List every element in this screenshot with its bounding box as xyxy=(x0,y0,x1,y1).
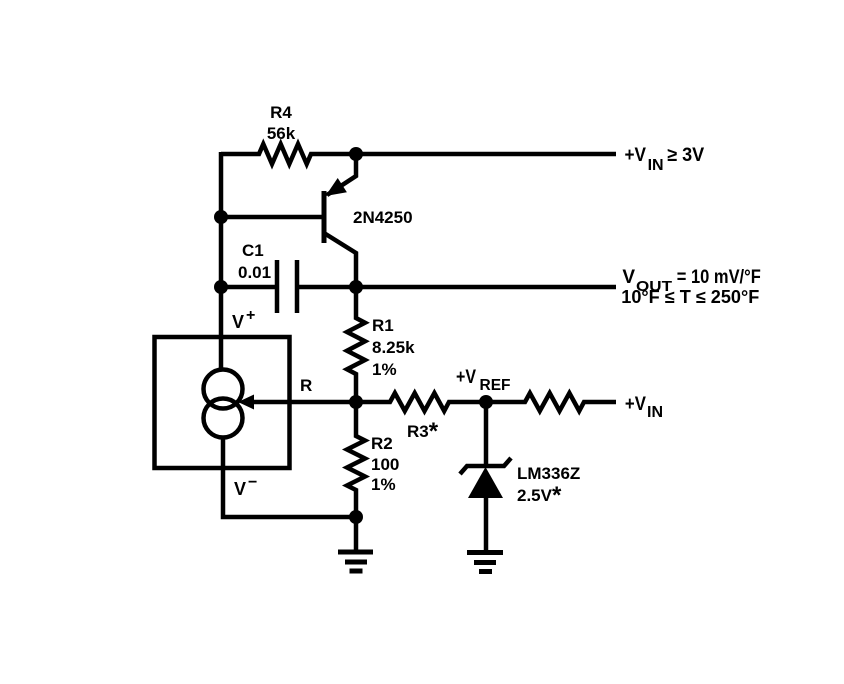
svg-text:1%: 1% xyxy=(372,360,397,379)
svg-text:+V: +V xyxy=(456,367,476,388)
svg-text:+V: +V xyxy=(625,394,646,415)
svg-text:REF: REF xyxy=(480,377,511,394)
svg-text:R2: R2 xyxy=(371,434,393,453)
svg-text:8.25k: 8.25k xyxy=(372,338,415,357)
svg-text:100: 100 xyxy=(371,455,399,474)
svg-text:10°F ≤ T ≤ 250°F: 10°F ≤ T ≤ 250°F xyxy=(621,287,759,307)
svg-text:C1: C1 xyxy=(242,241,264,260)
svg-text:R: R xyxy=(300,376,312,395)
svg-text:LM336Z: LM336Z xyxy=(517,464,580,483)
svg-text:IN: IN xyxy=(648,157,664,174)
svg-text:R1: R1 xyxy=(372,316,394,335)
svg-text:≥ 3V: ≥ 3V xyxy=(667,145,704,166)
svg-text:2.5V*: 2.5V* xyxy=(517,482,562,509)
svg-text:R3*: R3* xyxy=(407,418,439,445)
svg-text:V+: V+ xyxy=(232,307,255,332)
svg-text:+V: +V xyxy=(625,145,647,166)
svg-text:56k: 56k xyxy=(267,124,296,143)
svg-text:= 10 mV/°F: = 10 mV/°F xyxy=(677,267,761,288)
svg-text:V: V xyxy=(622,267,635,288)
svg-text:IN: IN xyxy=(647,404,663,421)
svg-text:1%: 1% xyxy=(371,475,396,494)
svg-text:R4: R4 xyxy=(270,103,292,122)
svg-text:V−: V− xyxy=(234,474,257,499)
svg-text:2N4250: 2N4250 xyxy=(353,208,413,227)
svg-text:0.01: 0.01 xyxy=(238,263,271,282)
